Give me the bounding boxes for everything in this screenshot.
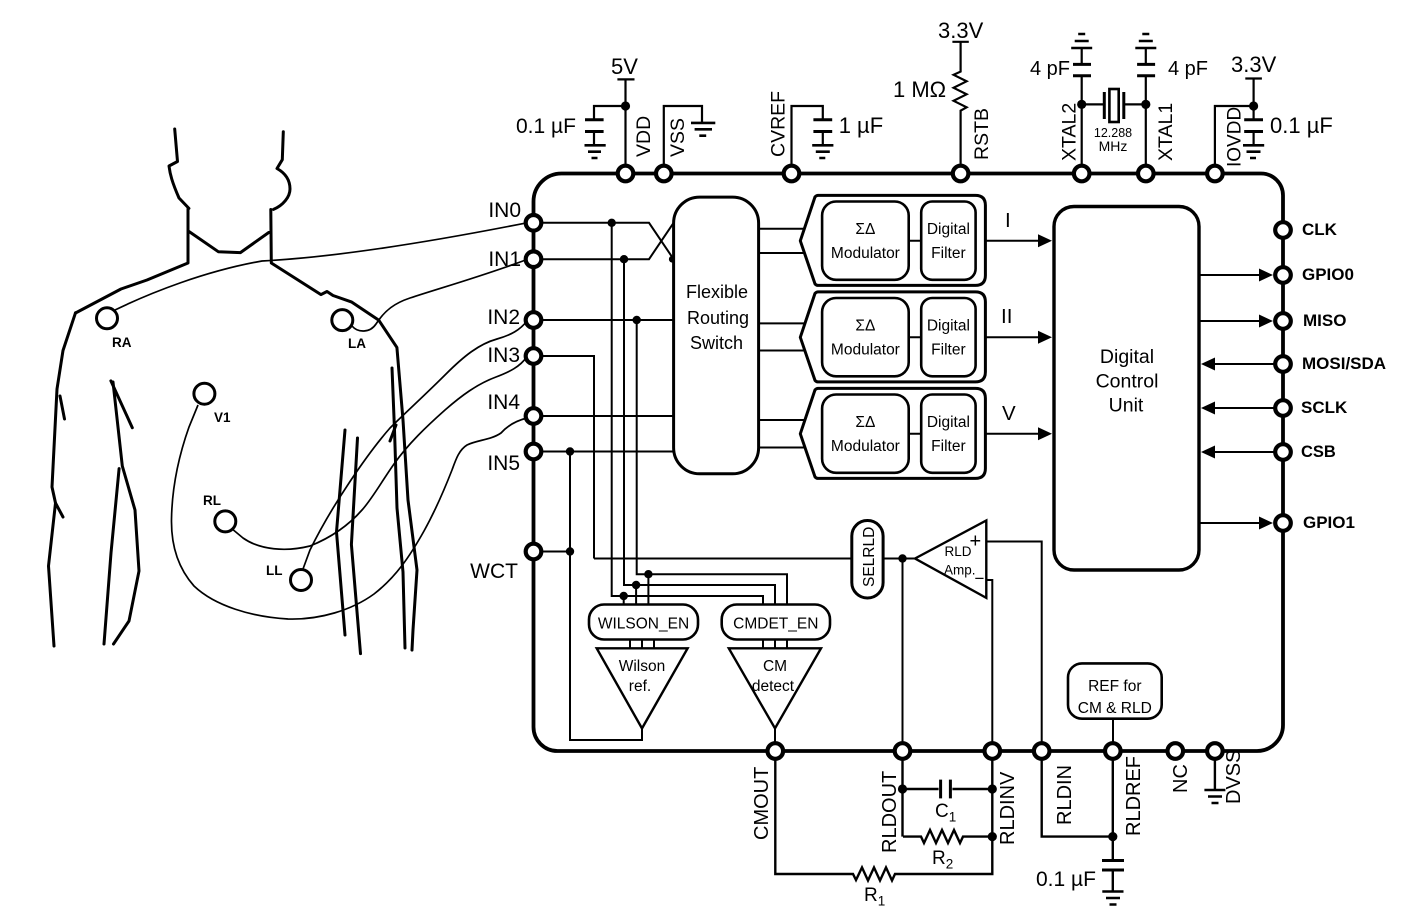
svg-text:IN2: IN2 [487, 306, 520, 329]
svg-text:LA: LA [348, 336, 366, 351]
svg-text:MISO: MISO [1303, 311, 1346, 330]
svg-text:1 MΩ: 1 MΩ [893, 77, 946, 102]
svg-text:WILSON_EN: WILSON_EN [598, 616, 689, 633]
svg-text:Flexible: Flexible [686, 282, 748, 302]
svg-text:4 pF: 4 pF [1168, 58, 1208, 80]
svg-text:ΣΔ: ΣΔ [855, 318, 875, 335]
svg-text:Digital: Digital [927, 414, 970, 431]
svg-text:WCT: WCT [470, 560, 518, 583]
svg-text:+: + [970, 531, 982, 553]
svg-text:Digital: Digital [927, 221, 970, 238]
svg-text:IN3: IN3 [487, 344, 520, 367]
svg-text:0.1 µF: 0.1 µF [1270, 113, 1333, 138]
svg-text:Switch: Switch [690, 333, 743, 353]
svg-text:RLDIN: RLDIN [1054, 765, 1076, 825]
svg-text:5V: 5V [611, 54, 638, 79]
svg-text:I: I [1005, 209, 1011, 232]
svg-text:RLDOUT: RLDOUT [879, 771, 901, 853]
svg-text:NC: NC [1170, 764, 1192, 793]
svg-text:IN1: IN1 [488, 248, 521, 271]
svg-text:IN4: IN4 [487, 391, 520, 414]
svg-text:V1: V1 [214, 410, 231, 425]
svg-text:GPIO0: GPIO0 [1302, 265, 1354, 284]
svg-text:Filter: Filter [931, 245, 965, 262]
svg-text:VDD: VDD [633, 116, 655, 157]
svg-text:Modulator: Modulator [831, 245, 900, 262]
svg-text:ΣΔ: ΣΔ [855, 414, 875, 431]
svg-text:GPIO1: GPIO1 [1303, 513, 1355, 532]
svg-text:−: − [975, 569, 985, 588]
svg-text:REF for: REF for [1088, 678, 1141, 695]
svg-text:3.3V: 3.3V [1231, 52, 1277, 77]
svg-text:ΣΔ: ΣΔ [855, 221, 875, 238]
svg-text:Unit: Unit [1109, 395, 1144, 417]
svg-text:Amp.: Amp. [944, 563, 976, 578]
svg-text:0.1 µF: 0.1 µF [1036, 868, 1096, 891]
svg-text:Modulator: Modulator [831, 438, 900, 455]
svg-text:CMDET_EN: CMDET_EN [733, 616, 818, 633]
svg-text:ref.: ref. [629, 678, 651, 695]
svg-text:RLDINV: RLDINV [997, 771, 1019, 845]
svg-text:Digital: Digital [1100, 346, 1154, 368]
svg-text:IN0: IN0 [488, 199, 521, 222]
svg-text:Modulator: Modulator [831, 342, 900, 359]
svg-text:4 pF: 4 pF [1030, 58, 1070, 80]
svg-text:Control: Control [1096, 371, 1159, 393]
svg-text:XTAL1: XTAL1 [1155, 103, 1177, 161]
svg-text:Wilson: Wilson [619, 658, 666, 675]
svg-text:SELRLD: SELRLD [861, 527, 878, 587]
svg-text:3.3V: 3.3V [938, 18, 984, 43]
svg-text:RLD: RLD [945, 544, 972, 559]
svg-text:Routing: Routing [687, 308, 749, 328]
svg-text:V: V [1002, 402, 1016, 425]
svg-text:MHz: MHz [1099, 138, 1128, 154]
svg-text:CVREF: CVREF [768, 91, 790, 157]
svg-text:II: II [1001, 305, 1012, 328]
svg-text:Digital: Digital [927, 318, 970, 335]
svg-text:LL: LL [266, 563, 283, 578]
svg-text:RLDREF: RLDREF [1123, 756, 1145, 836]
svg-text:VSS: VSS [667, 118, 689, 157]
svg-text:RSTB: RSTB [971, 108, 993, 160]
svg-text:DVSS: DVSS [1223, 750, 1245, 804]
svg-text:detect: detect [752, 678, 795, 695]
svg-text:1 µF: 1 µF [839, 113, 883, 138]
svg-text:CMOUT: CMOUT [751, 767, 773, 840]
svg-text:IOVDD: IOVDD [1225, 107, 1246, 167]
svg-text:IN5: IN5 [487, 452, 520, 475]
svg-text:SCLK: SCLK [1301, 398, 1348, 417]
svg-text:Filter: Filter [931, 438, 965, 455]
svg-text:Filter: Filter [931, 342, 965, 359]
svg-text:MOSI/SDA: MOSI/SDA [1302, 354, 1386, 373]
svg-text:RA: RA [112, 335, 132, 350]
svg-text:CSB: CSB [1301, 443, 1336, 461]
svg-text:CLK: CLK [1302, 220, 1338, 239]
svg-text:XTAL2: XTAL2 [1059, 103, 1081, 161]
svg-text:CM: CM [763, 658, 787, 675]
svg-text:CM & RLD: CM & RLD [1078, 700, 1152, 717]
svg-text:RL: RL [203, 493, 221, 508]
svg-text:0.1 µF: 0.1 µF [516, 115, 576, 138]
